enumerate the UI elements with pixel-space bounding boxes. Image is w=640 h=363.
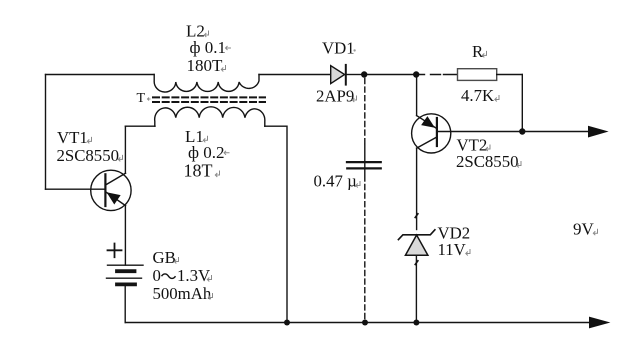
node VT2 emitter junction [413,71,419,77]
svg-text:ф 0.2: ф 0.2 [188,143,225,162]
zener diode VD2 (11V) [398,230,435,256]
svg-text:180T: 180T [187,56,224,75]
wire node to R (with break) [419,74,457,76]
wire node to VT2 emitter [416,78,418,116]
wire VT2 collector down [416,148,418,229]
wire L1 right lead [265,126,287,322]
svg-text:GB: GB [153,248,176,267]
svg-text:18T: 18T [184,161,213,181]
svg-text:0: 0 [153,266,161,285]
output arrow top [589,126,607,136]
wire R to corner [497,74,523,76]
tick mark on wire [415,214,418,218]
inductor L1 (secondary winding 18T) [155,107,265,126]
wire VD2 to bottom rail [415,255,417,322]
node L1/rail junction [284,320,290,326]
transformer T core [153,97,265,102]
wire to output arrow top [522,131,590,133]
wire bottom rail [125,322,592,324]
node R/base junction [519,128,525,134]
svg-text:T: T [137,91,146,106]
svg-text:R: R [472,42,484,61]
wire node to node [367,74,413,76]
wire left vertical [45,75,47,190]
inductor L2 (primary winding 180T) [154,75,259,93]
svg-text:0.47 µ: 0.47 µ [314,172,358,191]
svg-text:11V: 11V [438,240,466,259]
capacitor lead solid [364,145,366,182]
diode VD1 (2AP9) [331,65,346,85]
capacitor C 0.47u plates [347,162,381,168]
svg-text:2SC8550: 2SC8550 [57,146,119,165]
svg-text:4.7K: 4.7K [461,86,494,105]
wire VT1 emitter vertical [124,206,126,265]
wire VT2 base to junction [437,131,519,133]
transistor VT2 [412,114,451,153]
node VD2/rail junction [413,320,419,326]
wire top rail L2 to VD1 [259,74,331,76]
wire VT1 collector vertical [124,126,126,173]
svg-text:1.3V: 1.3V [177,266,210,285]
wire right vertical [521,75,523,132]
wire L1 left lead [125,125,155,127]
wire VT1 base [46,188,106,190]
svg-text:500mAh: 500mAh [153,284,212,303]
svg-text:ф 0.1: ф 0.1 [190,38,227,57]
svg-text:9V: 9V [573,220,595,239]
wire VD1 to node [347,74,361,76]
svg-text:VD1: VD1 [322,39,355,58]
svg-text:2AP9: 2AP9 [316,87,354,106]
dashed net capacitor branch lower [364,185,366,320]
tick mark on wire [415,261,418,265]
node cap branch/rail junction [362,320,368,326]
svg-text:VT1: VT1 [57,128,88,147]
wire top-left horizontal [46,74,155,76]
node VD1 cathode junction [361,71,367,77]
resistor R [458,69,497,81]
svg-text:2SC8550: 2SC8550 [456,152,518,171]
output arrow bottom [590,317,609,327]
dashed net capacitor branch upper [364,79,366,144]
wire battery to bottom rail [124,286,126,323]
transistor VT1 [91,170,131,210]
battery GB [107,244,144,285]
